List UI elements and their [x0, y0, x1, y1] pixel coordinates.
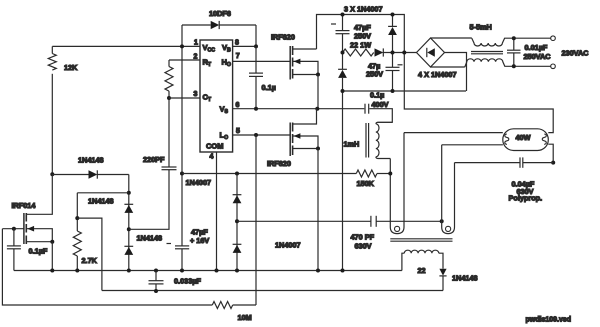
wire pin6 VS — [233, 108, 365, 110]
node VS half-bridge junction — [315, 107, 319, 111]
diode 1N4148 (vertical lower) — [124, 234, 162, 255]
wire Q2 source down — [317, 149, 319, 271]
svg-text:VCC: VCC — [203, 43, 216, 54]
wire to 2.7K — [77, 192, 129, 194]
svg-text:250V: 250V — [366, 70, 383, 79]
svg-text:470 PF: 470 PF — [351, 233, 375, 242]
wire bridge AC bottom — [431, 66, 465, 68]
node rail junction — [180, 172, 184, 176]
node choke bottom junction — [512, 64, 516, 68]
svg-text:1N4148: 1N4148 — [452, 274, 478, 283]
svg-text:COM: COM — [206, 142, 224, 151]
resistor 12K — [48, 46, 78, 174]
inductor 22 turn primary — [402, 250, 443, 275]
wire VCC vertical — [181, 25, 183, 246]
svg-text:250V: 250V — [354, 32, 371, 41]
wire pin2 — [169, 59, 200, 61]
svg-text:IRF014: IRF014 — [12, 201, 37, 210]
bridge rectifier 4 X 1N4007 — [417, 38, 457, 79]
wire pin5 LO — [233, 134, 291, 136]
node gate/cap junction — [12, 227, 16, 231]
svg-text:2: 2 — [194, 53, 198, 60]
svg-text:VB: VB — [222, 43, 231, 54]
svg-text:1N4148: 1N4148 — [88, 197, 114, 206]
wire lower rail — [102, 290, 443, 292]
svg-text:IRF820: IRF820 — [267, 159, 291, 168]
node junction 2.7K top — [75, 216, 79, 220]
diode 10DF6 — [182, 9, 256, 29]
svg-text:IRF820: IRF820 — [271, 33, 295, 42]
wire to lower rail — [77, 218, 102, 290]
resistor 150K — [356, 170, 390, 188]
inductor choke top winding — [472, 38, 551, 46]
wire filament pin right-right — [454, 163, 456, 227]
terminal AC bottom — [551, 64, 556, 69]
capacitor 0.01uF 250VAC — [507, 38, 551, 66]
wire bridge DC- right corner — [445, 53, 467, 92]
svg-text:5-5mH: 5-5mH — [470, 23, 492, 32]
svg-text:3 X 1N4007: 3 X 1N4007 — [344, 5, 383, 14]
svg-text:3: 3 — [194, 91, 198, 98]
wire lamp left top — [404, 132, 503, 134]
node poly cap junction — [551, 161, 555, 165]
wire Q1 source to VS — [317, 75, 319, 109]
wire VB vertical — [255, 25, 257, 46]
svg-text:HO: HO — [222, 58, 231, 69]
svg-text:pwdls109.vsd: pwdls109.vsd — [526, 317, 572, 324]
svg-text:22: 22 — [418, 266, 426, 275]
node A junction 12K/drain — [50, 172, 54, 176]
svg-text:2.7K: 2.7K — [82, 256, 98, 265]
capacitor 47uF 250V (valley fill top left) — [331, 15, 371, 70]
node CT junction — [167, 96, 171, 100]
filament winding right — [442, 226, 455, 233]
svg-text:630V: 630V — [355, 242, 372, 251]
svg-text:4 X 1N4007: 4 X 1N4007 — [418, 70, 457, 79]
transistor Q3 IRF014 — [2, 174, 52, 244]
node VS at cap junction — [254, 107, 258, 111]
svg-text:10DF6: 10DF6 — [209, 9, 231, 18]
capacitor 0.1u 400V — [365, 91, 392, 123]
capacitor 0.04uF 630V polyprop — [455, 157, 554, 202]
svg-text:RT: RT — [203, 58, 212, 69]
node VCC junction — [180, 44, 184, 48]
node 150K/1mH junction — [388, 172, 392, 176]
node VB junction — [254, 44, 258, 48]
svg-text:220PF: 220PF — [143, 155, 165, 164]
svg-text:Polyprop.: Polyprop. — [509, 194, 543, 203]
svg-text:0.1µ: 0.1µ — [262, 83, 276, 92]
wire bridge AC top — [431, 37, 472, 39]
inductor choke bottom winding — [465, 59, 551, 67]
diode 1N4007 (valley fill right) — [388, 15, 397, 68]
node Q1 source junction — [316, 73, 320, 77]
terminal AC top — [551, 36, 556, 41]
wire diode chain vertical — [128, 175, 130, 271]
svg-text:1: 1 — [194, 39, 198, 46]
diode 1N4148 (heater) — [439, 269, 477, 291]
choke core — [471, 52, 503, 54]
lamp 40W tube — [503, 129, 549, 151]
wire 1N4007 chain vertical — [236, 174, 238, 271]
wire ground rail y270 — [14, 270, 402, 272]
svg-text:22 1W: 22 1W — [350, 41, 371, 50]
diode 1N4007 (chain lower) — [233, 244, 242, 253]
capacitor 470PF 630V — [237, 216, 442, 251]
transistor Q1 IRF820 top — [271, 33, 318, 80]
svg-text:8: 8 — [235, 39, 239, 46]
wire lamp right bottom — [548, 144, 553, 162]
resistor 2.7K — [73, 193, 97, 271]
transistor Q2 IRF820 bottom — [267, 109, 318, 168]
svg-text:250VAC: 250VAC — [524, 52, 552, 61]
svg-text:1N4148: 1N4148 — [78, 156, 104, 165]
node 0.033 bottom junction — [154, 289, 158, 293]
node 470PF right junction — [440, 219, 444, 223]
resistor 22 1W — [343, 41, 374, 57]
svg-text:0.033µF: 0.033µF — [174, 277, 201, 286]
capacitor 0.033uF — [149, 271, 202, 292]
heater transformer core — [390, 239, 452, 241]
wire DC- drop — [342, 91, 344, 271]
svg-text:400V: 400V — [372, 100, 389, 109]
wire pin7 HO — [233, 60, 291, 62]
pin numbers — [194, 39, 241, 160]
wire DC- rail y91 — [343, 90, 467, 92]
wire Q3 source down — [51, 242, 53, 271]
wire 1mH bottom to filament — [389, 159, 391, 228]
node junction chain mid — [127, 227, 131, 231]
node choke top junction — [512, 36, 516, 40]
node Q3 source junction — [50, 240, 54, 244]
svg-text:CT: CT — [203, 93, 212, 104]
svg-text:1N4007: 1N4007 — [186, 178, 212, 187]
wire pin8 — [233, 45, 256, 47]
resistor RT — [165, 60, 173, 98]
op-amp U1 IC box IR2151 — [200, 40, 233, 152]
diode 1N4007 (valley fill left) — [338, 69, 347, 91]
wire pin4 COM — [216, 152, 218, 271]
node rail/diode chain junction — [235, 172, 239, 176]
svg-text:4: 4 — [210, 154, 214, 161]
svg-text:LO: LO — [220, 131, 229, 142]
svg-text:7: 7 — [236, 53, 240, 60]
capacitor 47u 250V (valley fill bottom right) — [366, 62, 403, 92]
svg-text:1mH: 1mH — [344, 140, 360, 149]
capacitor 220PF — [143, 98, 177, 170]
svg-text:0.01µF: 0.01µF — [525, 43, 548, 52]
svg-text:1N4148: 1N4148 — [137, 234, 163, 243]
svg-text:0.1µF: 0.1µF — [29, 247, 48, 256]
capacitor 0.1uF gate — [7, 229, 48, 271]
wire LO vertical — [255, 135, 257, 305]
svg-text:5: 5 — [236, 128, 240, 135]
wire 220PF return — [129, 170, 169, 229]
wire gate feedback bottom — [2, 229, 212, 305]
node Q2 source junction — [316, 147, 320, 151]
capacitor 47uF 16V — [167, 228, 210, 271]
diode 1N4148 (vertical upper) — [88, 197, 133, 213]
svg-text:+ 16V: + 16V — [190, 236, 209, 245]
svg-text:1N4007: 1N4007 — [275, 241, 301, 250]
svg-text:0.1µ: 0.1µ — [370, 91, 384, 100]
svg-text:VS: VS — [220, 105, 229, 116]
diode 1N4007 (chain upper) — [233, 195, 242, 204]
node LO junction — [254, 133, 258, 137]
inductor 1mH resonant — [344, 122, 393, 158]
wire lamp left bottom — [442, 144, 503, 146]
wire mid rail y173 — [182, 173, 356, 175]
svg-text:150K: 150K — [357, 179, 375, 188]
IC pin labels — [203, 43, 232, 151]
wire filament pin right-left — [441, 145, 443, 227]
wire DC+ top rail — [317, 15, 554, 133]
filament winding left — [390, 226, 404, 233]
svg-text:40W: 40W — [516, 133, 531, 142]
capacitor 0.1u bootstrap — [249, 46, 276, 108]
junction dots ground rail — [50, 269, 54, 273]
svg-text:230VAC: 230VAC — [562, 49, 590, 58]
wire VCC top row — [52, 45, 200, 47]
resistor 10M — [212, 302, 256, 323]
wire filament pin left-right — [403, 133, 405, 227]
node chain mid junction — [235, 219, 239, 223]
svg-text:12K: 12K — [64, 63, 78, 72]
svg-text:6: 6 — [236, 102, 240, 109]
diode 1N4148 (horizontal) — [52, 156, 129, 179]
diode 1N4007 (horizontal doubler) — [375, 48, 417, 56]
svg-text:10M: 10M — [238, 313, 252, 322]
junction dots rectifier — [341, 13, 345, 17]
wire pin3 — [169, 97, 200, 99]
node junction chain top — [127, 191, 131, 195]
